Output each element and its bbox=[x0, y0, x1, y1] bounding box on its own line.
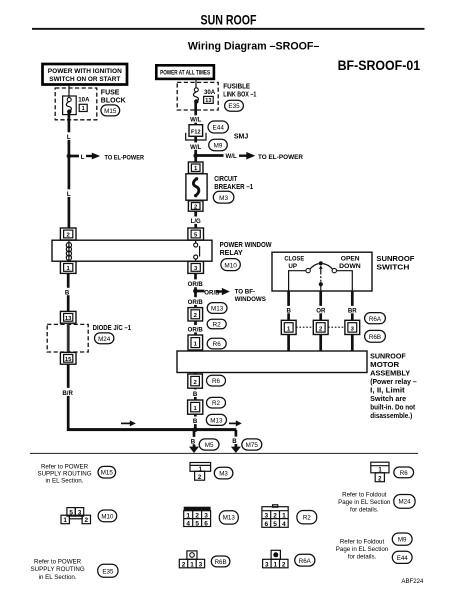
svg-text:CLOSE: CLOSE bbox=[284, 256, 304, 263]
svg-text:M3: M3 bbox=[219, 195, 228, 202]
svg-text:BREAKER –1: BREAKER –1 bbox=[214, 184, 253, 191]
svg-text:1: 1 bbox=[274, 561, 278, 568]
svg-text:M10: M10 bbox=[101, 513, 114, 520]
svg-text:M15: M15 bbox=[101, 470, 114, 477]
svg-text:Refer to POWER: Refer to POWER bbox=[34, 559, 82, 566]
svg-text:OR/B: OR/B bbox=[188, 327, 204, 334]
svg-text:SUNROOF: SUNROOF bbox=[376, 256, 415, 263]
svg-text:R6A: R6A bbox=[299, 558, 312, 565]
svg-text:Refer to Foldout: Refer to Foldout bbox=[340, 539, 385, 546]
svg-text:ABF224: ABF224 bbox=[401, 578, 424, 585]
svg-text:in EL Section.: in EL Section. bbox=[39, 574, 77, 581]
svg-text:SUPPLY ROUTING: SUPPLY ROUTING bbox=[31, 566, 85, 573]
svg-text:(Power relay –: (Power relay – bbox=[370, 379, 417, 386]
svg-text:M9: M9 bbox=[214, 143, 223, 150]
svg-text:13: 13 bbox=[205, 98, 211, 104]
svg-text:in EL Section.: in EL Section. bbox=[46, 477, 84, 484]
svg-text:FUSE: FUSE bbox=[101, 90, 120, 97]
svg-text:OR/B: OR/B bbox=[188, 281, 204, 288]
svg-text:E35: E35 bbox=[102, 568, 114, 575]
svg-text:5: 5 bbox=[69, 509, 73, 516]
svg-text:OPEN: OPEN bbox=[341, 256, 360, 263]
svg-text:M24: M24 bbox=[98, 336, 111, 343]
svg-text:2: 2 bbox=[282, 561, 286, 568]
svg-text:OR: OR bbox=[316, 307, 326, 314]
svg-text:SMJ: SMJ bbox=[234, 134, 249, 141]
svg-text:30A: 30A bbox=[204, 89, 216, 96]
svg-text:1: 1 bbox=[282, 513, 286, 520]
svg-text:SWITCH ON OR START: SWITCH ON OR START bbox=[49, 76, 120, 83]
svg-text:TO EL-POWER: TO EL-POWER bbox=[105, 155, 145, 162]
svg-text:BLOCK: BLOCK bbox=[101, 98, 126, 105]
svg-text:OR/B: OR/B bbox=[188, 299, 204, 306]
svg-text:OR/B: OR/B bbox=[204, 289, 220, 296]
svg-text:built-in. Do not: built-in. Do not bbox=[370, 405, 416, 412]
svg-text:W/L: W/L bbox=[190, 144, 201, 151]
svg-text:W/L: W/L bbox=[190, 117, 201, 124]
svg-text:TO BF-: TO BF- bbox=[235, 289, 256, 296]
svg-text:B: B bbox=[193, 391, 198, 398]
svg-text:Refer to Foldout: Refer to Foldout bbox=[342, 492, 387, 499]
svg-text:ASSEMBLY: ASSEMBLY bbox=[370, 371, 410, 378]
svg-text:B/R: B/R bbox=[62, 390, 73, 397]
svg-text:B: B bbox=[232, 438, 237, 445]
svg-text:BF-SROOF-01: BF-SROOF-01 bbox=[338, 58, 421, 74]
svg-text:2: 2 bbox=[182, 561, 186, 568]
svg-text:M13: M13 bbox=[210, 417, 223, 424]
svg-text:UP: UP bbox=[288, 263, 297, 270]
svg-text:2: 2 bbox=[85, 517, 89, 524]
svg-text:W/L: W/L bbox=[226, 153, 237, 160]
svg-text:B: B bbox=[286, 307, 291, 314]
svg-text:for details.: for details. bbox=[348, 554, 377, 561]
svg-text:1: 1 bbox=[63, 517, 67, 524]
svg-text:M10: M10 bbox=[224, 262, 237, 269]
svg-text:4: 4 bbox=[282, 521, 286, 528]
svg-text:M13: M13 bbox=[211, 306, 224, 313]
svg-text:L: L bbox=[67, 134, 71, 141]
svg-text:L: L bbox=[67, 191, 71, 198]
svg-text:1: 1 bbox=[190, 561, 194, 568]
svg-text:Page in EL Section: Page in EL Section bbox=[338, 499, 391, 506]
svg-text:10A: 10A bbox=[78, 97, 90, 104]
svg-text:disassemble.): disassemble.) bbox=[370, 413, 412, 420]
svg-text:I, II, Limit: I, II, Limit bbox=[370, 388, 405, 395]
svg-text:2: 2 bbox=[273, 513, 277, 520]
svg-text:LINK BOX –1: LINK BOX –1 bbox=[223, 92, 256, 99]
svg-text:3: 3 bbox=[204, 513, 208, 520]
svg-text:5: 5 bbox=[273, 521, 277, 528]
svg-text:2: 2 bbox=[195, 513, 199, 520]
svg-text:E44: E44 bbox=[397, 555, 409, 562]
svg-text:1: 1 bbox=[186, 513, 190, 520]
svg-text:Page in EL Section: Page in EL Section bbox=[336, 546, 389, 553]
svg-text:MOTOR: MOTOR bbox=[370, 362, 399, 369]
svg-text:WINDOWS: WINDOWS bbox=[235, 296, 266, 303]
svg-text:R6B: R6B bbox=[369, 334, 381, 341]
svg-text:SUNROOF: SUNROOF bbox=[370, 354, 406, 361]
svg-text:B: B bbox=[191, 438, 196, 445]
svg-text:RELAY: RELAY bbox=[220, 250, 243, 257]
svg-text:R6: R6 bbox=[212, 378, 221, 385]
svg-text:SUPPLY ROUTING: SUPPLY ROUTING bbox=[37, 470, 91, 477]
svg-text:FUSIBLE: FUSIBLE bbox=[223, 84, 250, 91]
svg-text:SWITCH: SWITCH bbox=[376, 264, 409, 271]
svg-text:4: 4 bbox=[186, 520, 190, 527]
svg-text:M75: M75 bbox=[246, 442, 259, 449]
svg-text:5: 5 bbox=[195, 520, 199, 527]
svg-text:15: 15 bbox=[65, 357, 72, 363]
svg-text:3: 3 bbox=[265, 561, 269, 568]
svg-text:L/G: L/G bbox=[191, 218, 201, 225]
svg-text:B: B bbox=[65, 289, 70, 296]
svg-text:13: 13 bbox=[65, 316, 72, 322]
svg-text:TO EL-POWER: TO EL-POWER bbox=[258, 154, 304, 161]
svg-text:6: 6 bbox=[204, 520, 208, 527]
svg-text:POWER AT ALL TIMES: POWER AT ALL TIMES bbox=[160, 70, 210, 77]
svg-text:3: 3 bbox=[78, 509, 82, 516]
svg-text:DIODE J/C –1: DIODE J/C –1 bbox=[93, 325, 132, 332]
svg-text:E35: E35 bbox=[228, 103, 240, 110]
svg-text:R2: R2 bbox=[303, 515, 311, 522]
svg-text:R6B: R6B bbox=[215, 559, 227, 566]
svg-text:B: B bbox=[193, 418, 198, 425]
svg-text:R2: R2 bbox=[212, 400, 221, 407]
svg-text:1: 1 bbox=[82, 106, 85, 112]
svg-text:L: L bbox=[81, 154, 85, 161]
svg-text:M3: M3 bbox=[219, 471, 228, 478]
svg-text:BR: BR bbox=[348, 307, 357, 314]
svg-text:M15: M15 bbox=[104, 108, 117, 115]
svg-text:Wiring Diagram –SROOF–: Wiring Diagram –SROOF– bbox=[188, 41, 320, 53]
svg-text:3: 3 bbox=[199, 561, 203, 568]
svg-text:M13: M13 bbox=[223, 515, 236, 522]
svg-text:6: 6 bbox=[264, 521, 268, 528]
svg-text:E44: E44 bbox=[213, 125, 225, 132]
svg-text:CIRCUIT: CIRCUIT bbox=[214, 176, 238, 183]
svg-text:R2: R2 bbox=[213, 321, 222, 328]
svg-text:SUN ROOF: SUN ROOF bbox=[201, 12, 257, 28]
svg-text:M5: M5 bbox=[205, 442, 214, 449]
svg-text:for details.: for details. bbox=[350, 507, 379, 514]
svg-text:3: 3 bbox=[264, 513, 268, 520]
svg-text:R6A: R6A bbox=[369, 316, 382, 323]
svg-text:POWER WINDOW: POWER WINDOW bbox=[220, 242, 272, 249]
svg-text:M9: M9 bbox=[398, 537, 407, 544]
svg-text:Switch are: Switch are bbox=[370, 396, 406, 403]
svg-text:Refer to POWER: Refer to POWER bbox=[41, 463, 89, 470]
svg-text:DOWN: DOWN bbox=[339, 263, 361, 270]
svg-text:R6: R6 bbox=[213, 341, 222, 348]
svg-text:POWER WITH IGNITION: POWER WITH IGNITION bbox=[48, 68, 123, 75]
svg-text:R6: R6 bbox=[400, 470, 408, 477]
svg-text:F12: F12 bbox=[191, 129, 200, 135]
svg-text:M24: M24 bbox=[398, 499, 411, 506]
